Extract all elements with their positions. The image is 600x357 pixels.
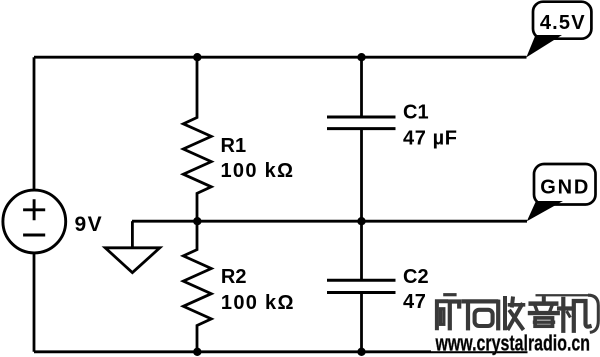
svg-text:100 kΩ: 100 kΩ [221,160,295,182]
battery V1 plus sign [23,199,45,220]
capacitor C1 top plate [327,116,396,119]
wire: left rail below battery [33,253,36,351]
watermark logo glyph shou [498,298,523,328]
svg-text:47 µF: 47 µF [403,128,458,150]
net flag GND callout box [534,164,596,205]
node: bottom junction at R2 [193,348,201,356]
svg-text:R2: R2 [221,266,247,288]
node: top junction at C1 [357,53,365,61]
wire: bottom rail [34,350,528,353]
wire: C1 bottom to C2 top through GND node [360,129,363,281]
wire: left rail above battery [33,57,36,189]
watermark logo frame corner bracket [536,295,599,332]
capacitor C1 bottom plate [327,127,396,130]
svg-text:100 kΩ: 100 kΩ [221,292,295,314]
node: middle junction at C divider [357,217,365,225]
svg-text:4.5V: 4.5V [540,12,586,34]
node: bottom junction at C2 [357,348,365,356]
ground stem wire [131,221,134,247]
resistor R2 zigzag with leads [183,221,211,352]
wire: middle rail (ground net) to GND tap [132,220,527,223]
battery V1 9V source circle [3,190,66,253]
ground symbol triangle [105,248,160,273]
capacitor C2 bottom plate [327,291,396,294]
watermark logo glyph ji [559,299,590,331]
net flag 4.5V callout box [533,2,591,39]
net flag 4.5V tail pointer [526,35,562,57]
node: top junction at R1 [193,53,201,61]
wire: top rail from battery + to 4.5V tap [34,56,527,59]
watermark logo glyph kuang [437,295,459,329]
svg-text:C2: C2 [403,266,429,288]
svg-text:GND: GND [540,177,590,199]
watermark logo glyph yin [530,298,558,326]
svg-text:R1: R1 [221,135,247,157]
capacitor C2 top plate [327,279,396,282]
resistor R1 zigzag with leads [183,57,211,221]
battery V1 minus sign [23,234,45,237]
watermark logo glyph shi [464,301,497,328]
svg-text:www.crystalradio.cn: www.crystalradio.cn [435,330,590,355]
capacitor C2 bottom lead [360,293,363,352]
watermark white backing panel [431,240,600,351]
node: middle junction at R divider [193,217,201,225]
svg-text:C1: C1 [403,102,429,124]
svg-text:9V: 9V [75,213,104,236]
capacitor C1 top lead [360,57,363,117]
net flag GND tail pointer [527,201,563,221]
